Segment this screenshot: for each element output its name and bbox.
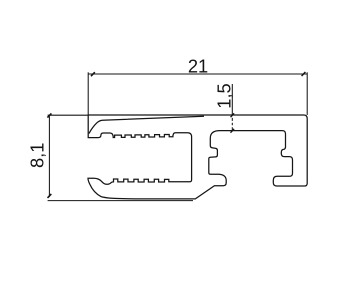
dimension 8,1 line xyxy=(48,116,50,198)
svg-text:8,1: 8,1 xyxy=(26,143,47,168)
top jaw flex slit line xyxy=(89,116,204,133)
dimension 8,1 bottom extension line xyxy=(48,200,193,202)
dimension 21 line xyxy=(88,73,307,75)
dimension 21 right tick xyxy=(302,72,306,76)
dimension 8,1 bottom tick xyxy=(48,194,52,198)
dimension 21 left tick xyxy=(91,72,95,76)
dimension 8,1 top extension line xyxy=(48,114,89,116)
svg-text:1,5: 1,5 xyxy=(214,83,235,108)
dimension 21 right extension line xyxy=(306,72,308,115)
dimension 1,5 line upper part xyxy=(231,84,233,115)
dimension 1,5 dashed lower part xyxy=(231,118,233,131)
profile outer contour xyxy=(88,115,307,199)
dimension 21 left extension line xyxy=(87,72,89,115)
dimension 1,5 ticks xyxy=(231,113,235,132)
dimension 8,1 top tick xyxy=(47,113,51,117)
svg-text:21: 21 xyxy=(188,55,208,76)
